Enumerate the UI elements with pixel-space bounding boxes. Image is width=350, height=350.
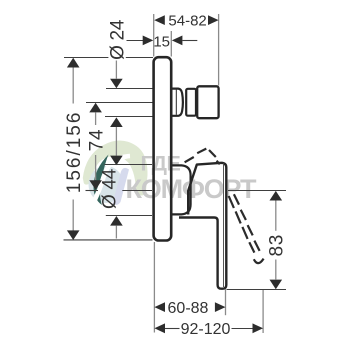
extension line top-left of plate front face [153,14,155,57]
extension line top of plate back face [170,31,172,57]
svg-text:54-82: 54-82 [168,13,206,30]
svg-text:15: 15 [153,33,170,50]
handle rosette [171,165,190,214]
svg-text:74: 74 [87,129,108,152]
extension line handle centre left [86,190,99,192]
watermark logo teal swoosh [93,155,108,206]
watermark logo lavender petal [113,168,130,205]
dimension Ø24 bottom arrow and stub [110,117,123,127]
dimension 54-82 arrows and text [154,15,165,25]
dimension Ø44 top arrow [110,156,123,166]
spout flange inner line [175,90,177,115]
watermark logo light blue disc [89,166,124,203]
dashed handle swung position right edge [234,194,260,251]
dimension Ø44 bottom arrow and stub [110,216,123,226]
svg-text:83: 83 [267,234,288,257]
extension line rosette top [105,164,153,166]
spout end cap [197,86,218,118]
dashed handle swung tip cap [254,259,264,264]
extension line spout top [106,88,153,90]
extension line lever bottom right [227,289,286,291]
dimension 156/156 line and arrows [67,58,80,68]
extension line bottom from lever grip [225,289,227,315]
dimension 83 line and arrows [270,191,283,201]
dimension 74 line and arrows [89,103,102,113]
dimension 92-120 arrows, tails and text [154,323,165,333]
watermark logo sage arch band [83,140,148,195]
svg-text:92-120: 92-120 [181,321,231,338]
escutcheon plate side view [154,57,172,240]
extension line handle pivot right [228,190,286,192]
extension line bottom-left from plate [153,242,155,333]
extension line rosette bottom [106,215,152,217]
spout ring nut [186,89,196,116]
svg-text:Ø 24: Ø 24 [107,19,128,60]
extension line spout centre [86,102,153,104]
dimension 15 arrows, tails and text [127,40,145,42]
dimension Ø24 top arrow and stub [115,61,117,79]
extension line spout bottom [105,116,153,118]
svg-text:Ø 44: Ø 44 [100,168,121,209]
svg-text:60-88: 60-88 [168,300,209,317]
watermark logo white swoosh highlight [95,156,131,201]
extension line top-right of spout end [218,14,220,86]
spout flange on plate [171,89,183,116]
svg-text:156/156: 156/156 [64,111,85,194]
handle lever outline [179,163,226,289]
extension line bottom-right from lever end [262,290,264,333]
dashed handle swung position left edge [229,196,255,253]
dimension 60-88 arrows and text [154,302,165,312]
handle lever inner highlight line [223,164,225,288]
dashed handle raised position [185,149,220,165]
extension line plate top to 156 dim [64,57,108,59]
svg-text:ГДЕ: ГДЕ [141,152,181,176]
extension line plate bottom [64,239,153,241]
